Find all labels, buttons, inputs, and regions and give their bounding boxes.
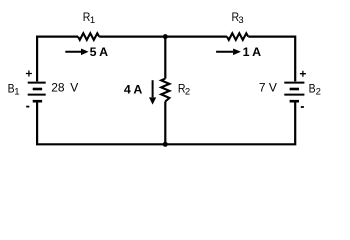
svg-text:7 V: 7 V [259,80,277,94]
svg-text:2: 2 [185,87,190,98]
svg-text:3: 3 [238,15,243,26]
svg-text:4 A: 4 A [124,82,142,96]
svg-text:1 A: 1 A [243,45,261,59]
svg-text:2: 2 [316,87,321,98]
svg-text:1: 1 [14,87,19,98]
svg-text:1: 1 [90,15,95,26]
svg-text:28: 28 [51,80,65,94]
svg-text:5 A: 5 A [90,45,108,59]
svg-text:B: B [309,81,316,95]
svg-text:V: V [70,80,78,94]
